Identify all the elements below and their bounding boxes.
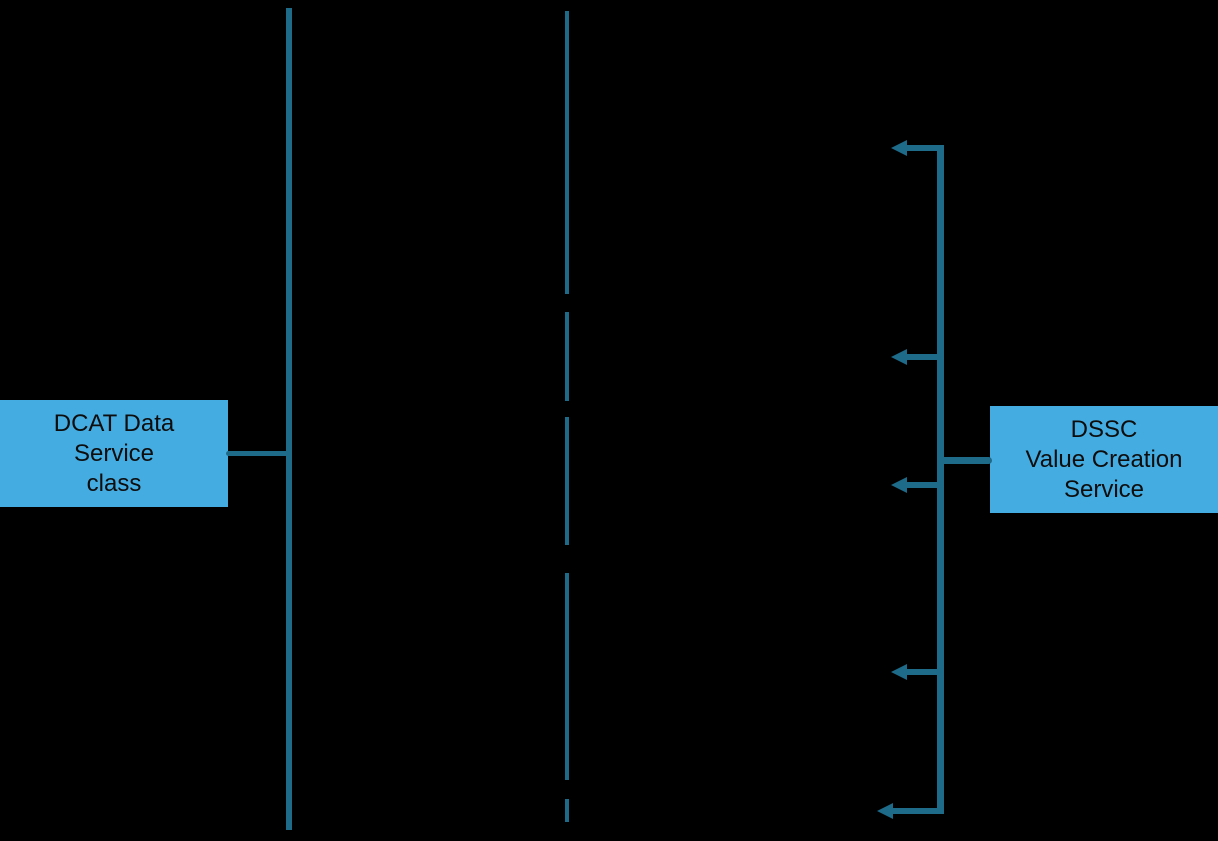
connector: left box to lifeline 1 [226,451,289,456]
lifeline 2 segment c [565,417,569,546]
box: DCAT Data Service class [0,400,228,507]
arrow 3 head [891,477,907,493]
lifeline 1 (left vertical line) [286,8,292,830]
box: DSSC Value Creation Service [990,406,1218,513]
arrow 3 shaft [905,482,937,488]
arrow 5 head [877,803,893,819]
arrow 4 shaft [905,669,937,675]
arrow 2 head [891,349,907,365]
arrow 5 shaft (bottom) [892,808,944,814]
arrow 4 head [891,664,907,680]
arrow 1 head [891,140,907,156]
lifeline 2 segment b [565,312,569,401]
lifeline 2 segment d [565,573,569,780]
connector: DSSC box to bus line [937,457,992,464]
bus: right vertical line [937,145,944,814]
lifeline 2 segment a [565,11,569,294]
arrow 1 shaft [905,145,944,151]
lifeline 2 segment e [565,799,569,822]
arrow 2 shaft [905,354,937,360]
